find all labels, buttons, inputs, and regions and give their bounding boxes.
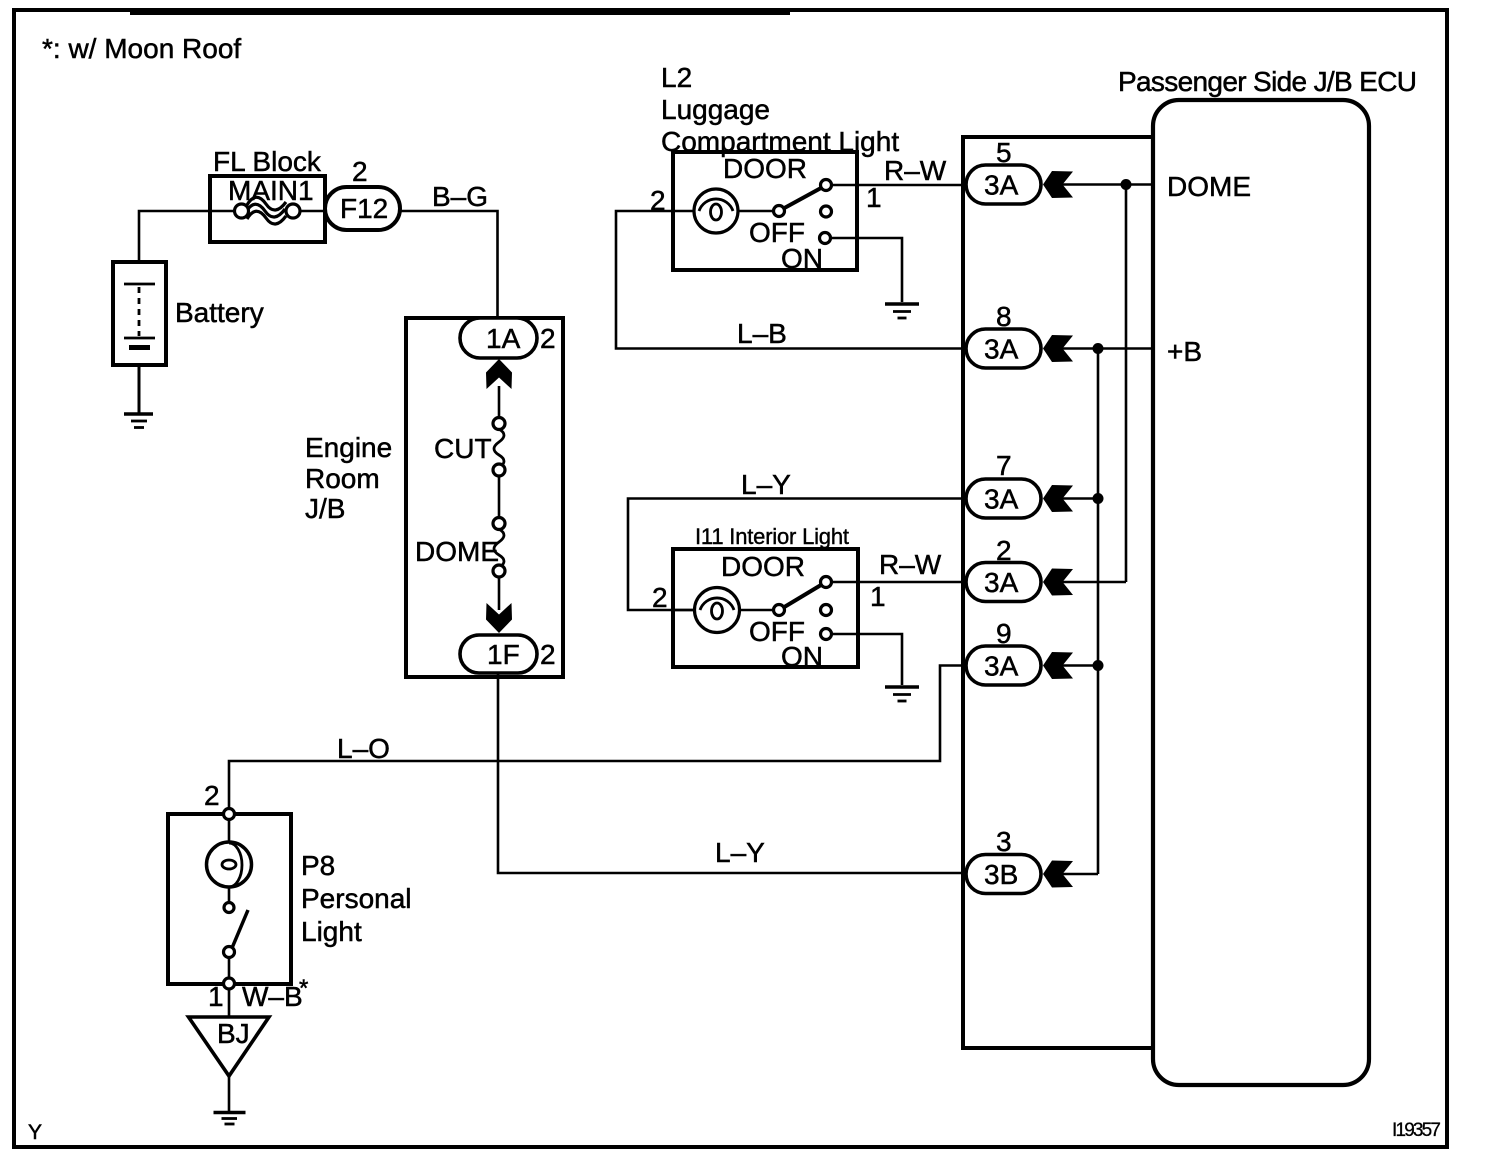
svg-text:3A: 3A [984, 334, 1019, 365]
svg-text:Passenger Side J/B ECU: Passenger Side J/B ECU [1118, 66, 1417, 97]
connector 1F [460, 635, 556, 673]
wire [498, 476, 501, 517]
lamp I11 [700, 598, 734, 610]
svg-text:DOME: DOME [1167, 171, 1251, 202]
svg-text:7: 7 [996, 450, 1012, 481]
svg-text:Battery: Battery [175, 297, 264, 328]
svg-text:L–B: L–B [737, 318, 787, 349]
fuse connector F12 [325, 156, 400, 230]
svg-text:DOME: DOME [415, 536, 499, 567]
svg-text:3B: 3B [984, 859, 1018, 890]
switch L2 [784, 188, 822, 209]
svg-text:3A: 3A [984, 484, 1019, 515]
svg-text:L2: L2 [661, 62, 692, 93]
wire to 7/3A [1060, 497, 1098, 500]
wire BJ to ground [228, 1076, 231, 1111]
connector 7 3A [966, 450, 1073, 518]
svg-text:FL Block: FL Block [213, 146, 322, 177]
svg-text:2: 2 [540, 639, 556, 670]
connector strip box [963, 137, 1153, 1048]
wire 5/3A to ECU (DOME net) [1060, 183, 1153, 186]
wire 8/3A to ECU (+B net) [1060, 347, 1153, 350]
svg-text:R–W: R–W [879, 549, 942, 580]
svg-text:J/B: J/B [305, 493, 345, 524]
wire to 9/3A [1060, 664, 1098, 667]
connector 3 3B [966, 826, 1073, 894]
svg-text:2: 2 [652, 582, 668, 613]
lamp P8 [229, 843, 242, 887]
svg-text:F12: F12 [340, 193, 388, 224]
svg-text:*: w/ Moon Roof: *: w/ Moon Roof [42, 33, 241, 64]
fusible link FL Block MAIN1 [210, 146, 325, 242]
svg-text:L–Y: L–Y [715, 837, 765, 868]
svg-text:P8: P8 [301, 850, 335, 881]
svg-text:1F: 1F [487, 639, 520, 670]
connector 2 3A [966, 535, 1073, 602]
connector 1A [460, 318, 556, 358]
svg-text:1: 1 [208, 981, 224, 1012]
connector 9 3A [966, 618, 1073, 685]
wire [498, 577, 501, 610]
svg-text:1: 1 [870, 581, 886, 612]
ground junction BJ [189, 1017, 270, 1076]
svg-text:+B: +B [1167, 336, 1202, 367]
ground (I11) [885, 687, 919, 701]
Engine Room J/B box [305, 318, 563, 677]
wire battery to ground [138, 365, 141, 413]
svg-text:*: * [299, 975, 308, 1002]
battery B1 [113, 262, 264, 365]
svg-text:Room: Room [305, 463, 380, 494]
wire to 3/3B [1060, 873, 1098, 876]
svg-text:3A: 3A [984, 567, 1019, 598]
svg-text:L–Y: L–Y [741, 469, 791, 500]
lamp L2 [699, 199, 733, 211]
ground (battery) [124, 414, 153, 428]
svg-text:Engine: Engine [305, 432, 392, 463]
svg-text:W–B: W–B [242, 981, 303, 1012]
svg-text:3: 3 [996, 826, 1012, 857]
P8 Personal Light [168, 780, 412, 989]
svg-text:I11 Interior Light: I11 Interior Light [695, 524, 849, 549]
svg-text:BJ: BJ [217, 1018, 250, 1049]
switch I11 [784, 585, 822, 608]
svg-text:R–W: R–W [884, 155, 947, 186]
wire L2 ON to ground [831, 238, 903, 302]
svg-text:L–O: L–O [337, 733, 390, 764]
svg-text:Personal: Personal [301, 883, 412, 914]
wire I11 ON to ground [832, 634, 903, 685]
svg-text:Light: Light [301, 916, 362, 947]
svg-text:ON: ON [781, 641, 823, 672]
fuse CUT [434, 418, 505, 477]
arrow up (1A) [486, 359, 512, 389]
svg-text:MAIN1: MAIN1 [228, 175, 314, 206]
svg-text:Luggage: Luggage [661, 94, 770, 125]
switch P8 [224, 903, 234, 913]
I11 Interior Light [652, 524, 886, 672]
svg-text:I19357: I19357 [1392, 1120, 1441, 1141]
svg-text:1: 1 [866, 182, 882, 213]
connector 5 3A [966, 137, 1073, 204]
wire [498, 386, 501, 417]
svg-text:ON: ON [781, 243, 823, 274]
svg-text:B–G: B–G [432, 181, 488, 212]
svg-text:DOOR: DOOR [723, 153, 807, 184]
fuse DOME [415, 518, 505, 578]
svg-text:DOOR: DOOR [721, 551, 805, 582]
arrow down (1F) [486, 603, 512, 633]
svg-text:Y: Y [28, 1121, 42, 1144]
ground (BJ) [214, 1113, 246, 1125]
svg-text:2: 2 [540, 323, 556, 354]
svg-text:2: 2 [204, 780, 220, 811]
svg-text:1A: 1A [486, 323, 521, 354]
svg-text:3A: 3A [984, 170, 1019, 201]
wire P8 to BJ [228, 989, 231, 1016]
svg-text:CUT: CUT [434, 433, 492, 464]
ECU box Passenger Side J/B ECU [1118, 66, 1417, 1085]
ground (L2) [885, 304, 919, 318]
svg-text:3A: 3A [984, 651, 1019, 682]
connector 8 3A [966, 301, 1073, 368]
wire to 2/3A [1060, 581, 1126, 584]
wire battery to FL block [139, 211, 236, 262]
svg-text:2: 2 [352, 156, 368, 187]
L2 Luggage Compartment Light [650, 62, 899, 274]
